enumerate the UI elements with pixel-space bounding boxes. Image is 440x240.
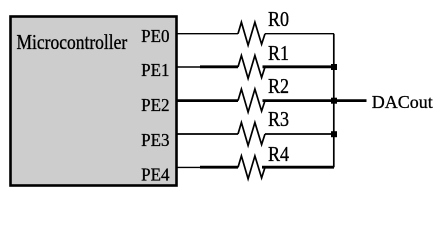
wire R2 to bus <box>263 99 335 102</box>
svg-text:PE1: PE1 <box>141 59 169 80</box>
svg-text:R2: R2 <box>268 74 289 98</box>
svg-text:PE4: PE4 <box>141 164 169 185</box>
junction node at R1 <box>331 64 337 70</box>
wire R4 to bus <box>262 166 334 169</box>
svg-text:R1: R1 <box>268 42 289 66</box>
resistor R0 <box>238 22 265 45</box>
wire PE3 to R3 <box>177 133 238 135</box>
svg-text:PE0: PE0 <box>141 25 169 46</box>
junction node at R2 <box>331 98 337 104</box>
wire R0 to bus <box>265 33 334 35</box>
wire PE2 to R2 <box>177 99 238 102</box>
svg-text:PE3: PE3 <box>141 130 169 151</box>
resistor R3 <box>238 123 265 146</box>
junction node at R3 <box>331 131 337 137</box>
microcontroller U1 <box>11 17 177 186</box>
wire R1 to bus <box>263 65 335 68</box>
wire to DACout <box>334 99 367 102</box>
resistor R2 <box>238 89 265 112</box>
wire PE4 to R4 <box>177 166 200 168</box>
svg-text:R0: R0 <box>268 8 289 32</box>
svg-text:R3: R3 <box>268 108 289 132</box>
wire R3 to bus <box>265 133 334 135</box>
resistor R4 <box>238 156 265 179</box>
svg-text:DACout: DACout <box>372 92 433 112</box>
svg-text:Microcontroller: Microcontroller <box>17 32 128 55</box>
svg-text:R4: R4 <box>268 143 289 167</box>
wire PE0 to R0 <box>177 33 238 35</box>
bus wire vertical <box>333 34 335 168</box>
resistor R1 <box>238 56 265 79</box>
svg-text:PE2: PE2 <box>141 95 169 116</box>
wire PE1 to R1 <box>177 66 200 68</box>
